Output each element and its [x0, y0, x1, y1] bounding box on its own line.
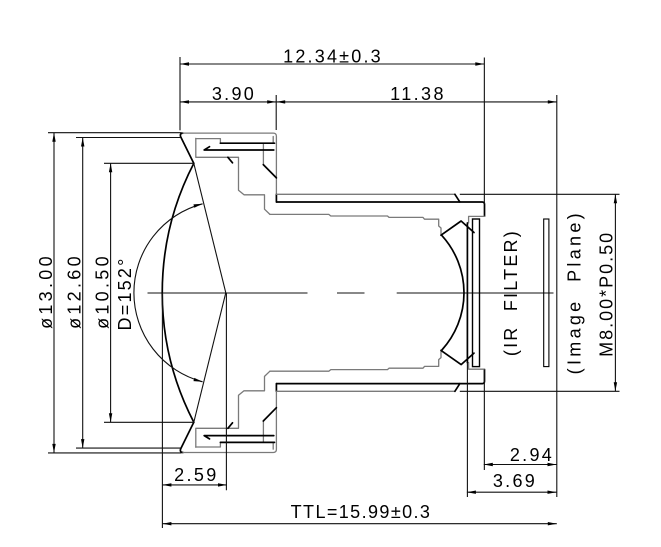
label IR FILTER — [501, 229, 521, 356]
inner bore profile top — [270, 214, 441, 235]
dimension 2.94 — [484, 445, 557, 466]
cap inner step profile top — [196, 137, 273, 215]
lens barrel front cap outline bottom (mirror) — [180, 384, 276, 453]
svg-text:(IR FILTER): (IR FILTER) — [501, 229, 521, 356]
image plane — [544, 219, 549, 367]
angular dimension arc D=152 — [134, 204, 203, 382]
svg-text:M8.00*P0.50: M8.00*P0.50 — [596, 231, 616, 357]
svg-text:ø12.60: ø12.60 — [65, 253, 85, 329]
lens barrel front cap outline top — [180, 133, 276, 202]
thread major diameter line top — [276, 194, 459, 202]
dimension 12.34+-0.3 — [180, 46, 484, 66]
front dome lens outer surface arc — [162, 163, 194, 422]
retaining ring groove lines top — [204, 143, 274, 150]
svg-text:ø13.00: ø13.00 — [36, 253, 56, 329]
dimension dia 12.60 — [65, 138, 85, 449]
aperture chamfer line bottom — [228, 408, 277, 429]
centerline optical axis — [148, 292, 554, 294]
dimension 2.59 — [162, 465, 227, 487]
extension lines dia 10.5 — [104, 163, 194, 422]
aperture chamfer line top — [228, 157, 277, 178]
extension line x=180 — [179, 57, 181, 130]
dimension TTL=15.99+-0.3 — [162, 502, 556, 525]
svg-text:11.38: 11.38 — [390, 84, 446, 104]
extension line x=484.3 — [483, 58, 485, 471]
extension line x=162.4 front vertex — [161, 293, 163, 528]
rear lens element surface arc — [442, 236, 464, 350]
svg-text:3.90: 3.90 — [212, 84, 256, 104]
extension lines dia 13 — [48, 133, 182, 453]
dimension dia 13.00 — [36, 133, 56, 453]
extension line x=276.2 — [275, 95, 277, 130]
dimension 11.38 — [276, 84, 557, 104]
svg-text:2.59: 2.59 — [174, 465, 219, 485]
svg-text:D=152°: D=152° — [115, 257, 135, 331]
field angle legs 152 degrees — [194, 163, 226, 422]
svg-text:TTL=15.99±0.3: TTL=15.99±0.3 — [291, 502, 432, 522]
svg-text:3.69: 3.69 — [493, 471, 537, 491]
rear barrel face vertical — [466, 223, 468, 363]
extension line x=227 — [225, 293, 227, 491]
label D=152 — [115, 257, 135, 331]
extension line x=467.4 lower — [466, 363, 468, 497]
svg-text:12.34±0.3: 12.34±0.3 — [283, 46, 383, 66]
svg-text:2.94: 2.94 — [510, 445, 554, 465]
extension lines dia 12.6 — [76, 138, 181, 449]
IR filter — [473, 219, 480, 367]
thread root line top — [277, 202, 485, 216]
dimension 3.69 — [467, 471, 557, 494]
rear barrel step top — [467, 216, 484, 223]
dimension 3.90 — [180, 84, 276, 104]
dimension M8.00*P0.50 — [460, 194, 620, 391]
inner bore profile bottom — [270, 350, 441, 371]
rear retainer V notch top — [441, 221, 474, 235]
cap inner step profile bottom — [196, 371, 273, 449]
svg-text:ø10.50: ø10.50 — [92, 253, 112, 329]
label Image Plane — [565, 210, 585, 374]
rear retainer V notch bottom — [441, 350, 474, 364]
retaining ring groove lines bottom — [204, 436, 274, 443]
rear barrel step bottom — [467, 363, 484, 370]
svg-text:(Image Plane): (Image Plane) — [565, 210, 585, 374]
extension line x=556.8 — [556, 95, 558, 497]
thread root line bottom — [277, 369, 485, 383]
dimension dia 10.50 — [92, 163, 112, 422]
thread major diameter line bottom — [276, 384, 459, 392]
